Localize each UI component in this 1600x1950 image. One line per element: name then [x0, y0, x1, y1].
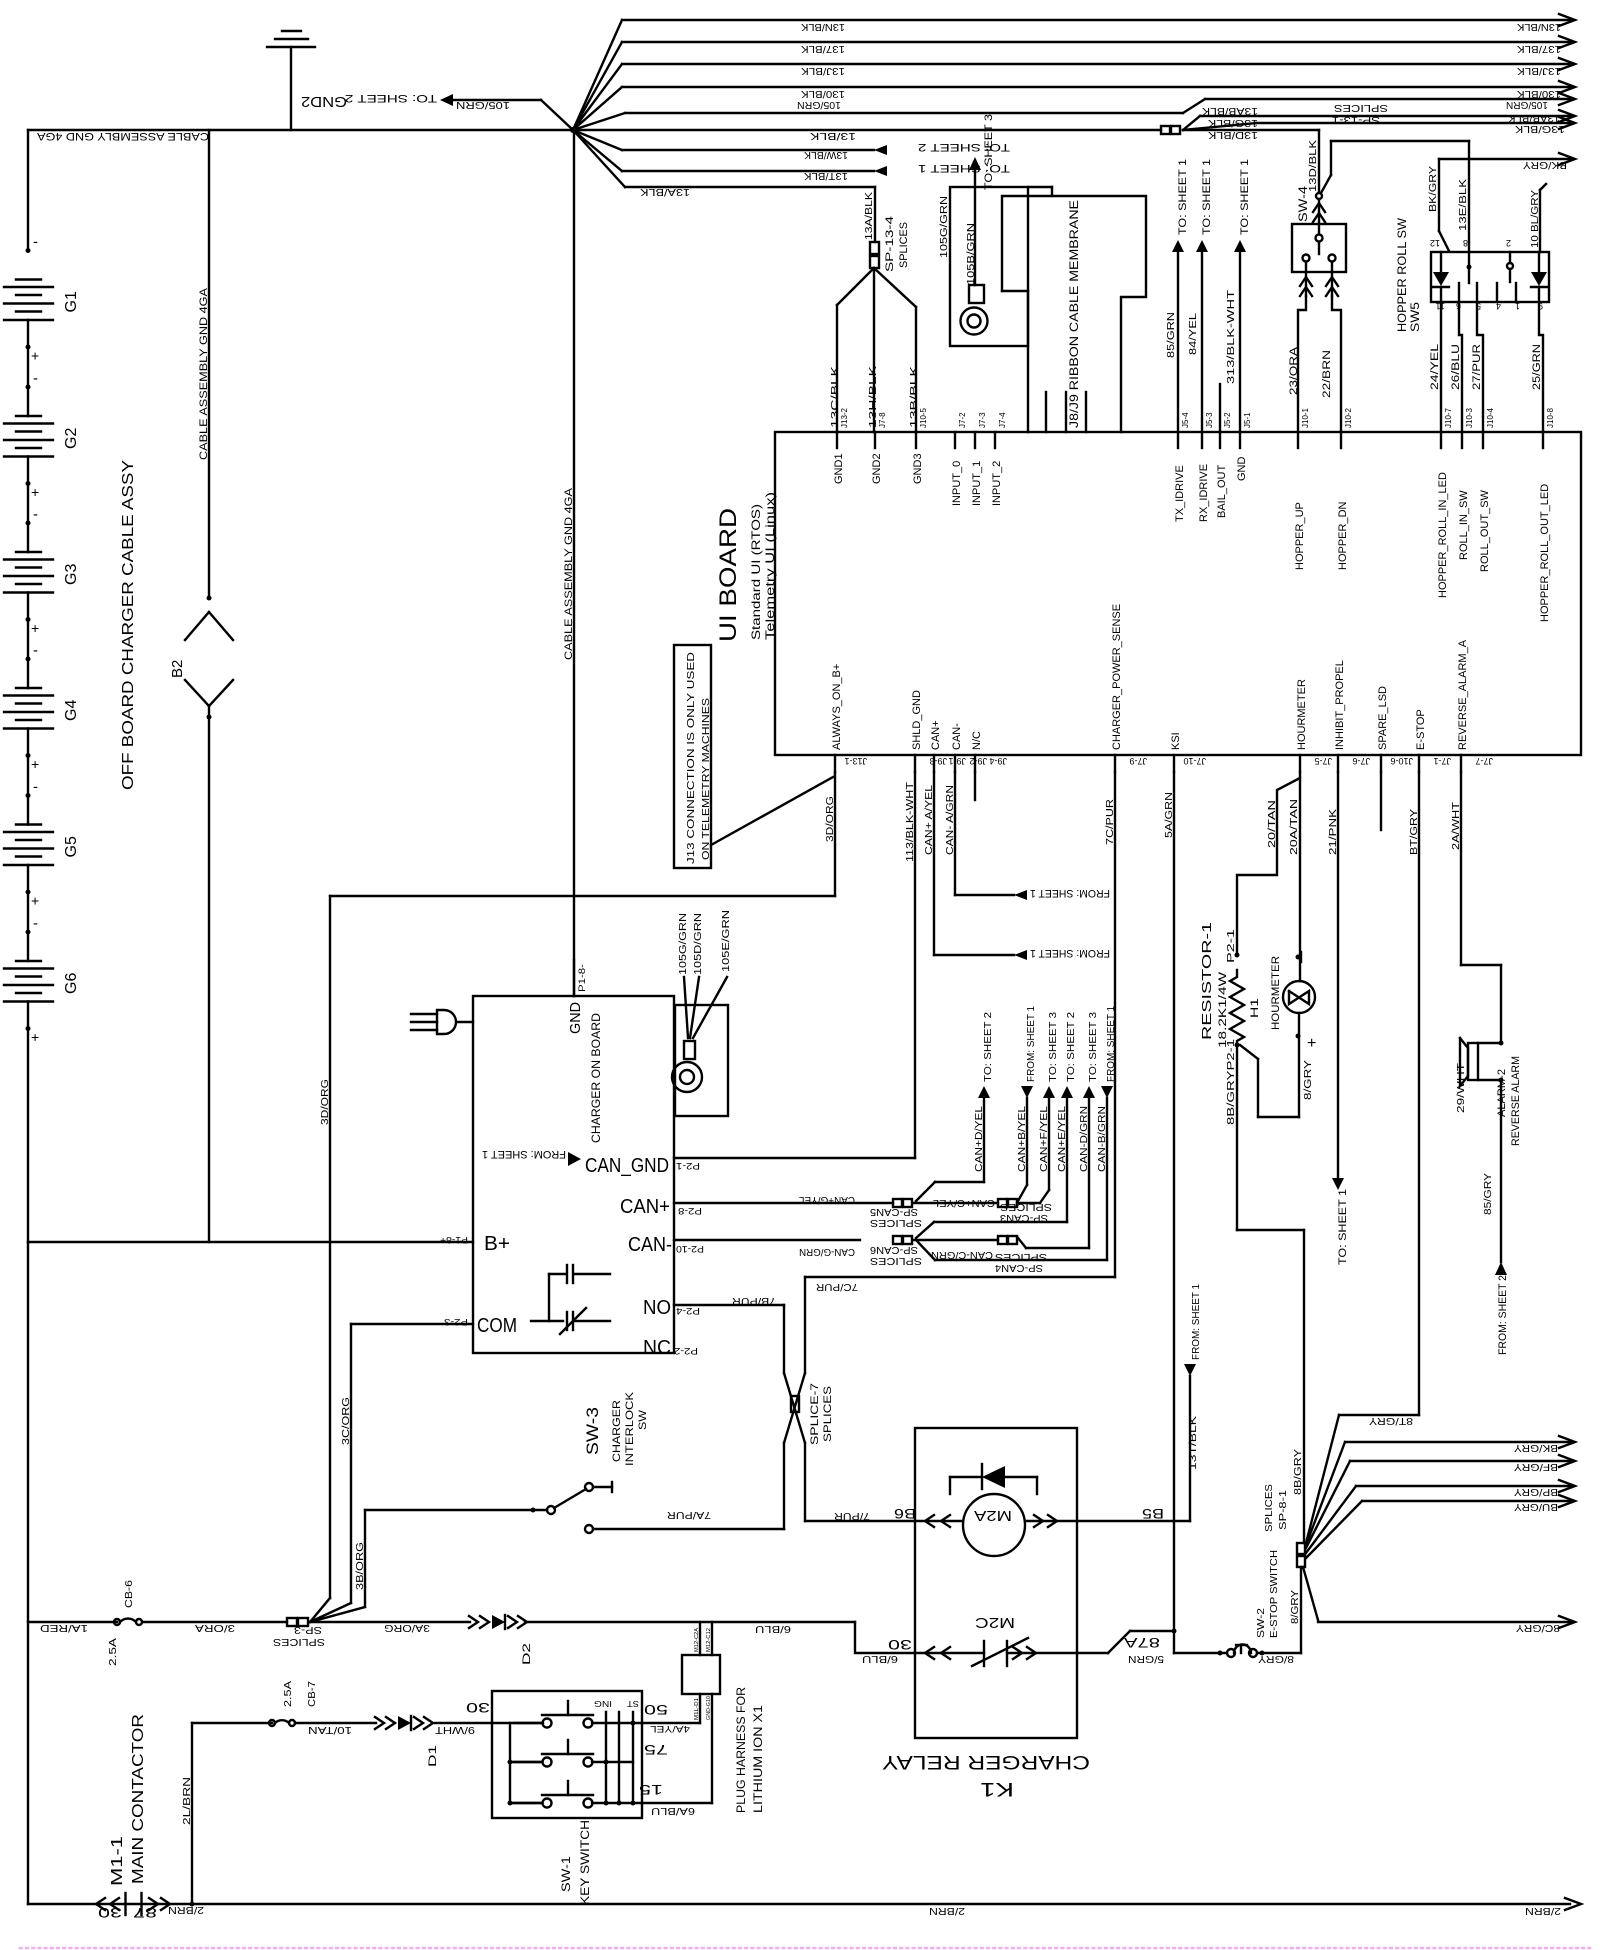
wire CAN- A/GRN from sheet 1 — [954, 772, 956, 895]
svg-text:13J/BLK: 13J/BLK — [1517, 65, 1561, 76]
svg-text:CAN-: CAN- — [628, 1234, 672, 1256]
svg-text:FROM: SHEET 1: FROM: SHEET 1 — [1191, 1284, 1202, 1360]
svg-text:J10-3: J10-3 — [1465, 407, 1474, 428]
svg-text:GND2: GND2 — [301, 93, 347, 110]
svg-text:G5: G5 — [63, 836, 80, 857]
svg-text:B+: B+ — [484, 1233, 510, 1255]
wire 15 to plug connector — [642, 1802, 712, 1804]
svg-text:SW-2: SW-2 — [1256, 1607, 1267, 1638]
wire CAN+ A/YEL from sheet 1 — [933, 772, 935, 955]
svg-text:HOURMETER: HOURMETER — [1270, 956, 1282, 1030]
svg-text:SW: SW — [637, 1409, 649, 1430]
svg-text:SW-3: SW-3 — [583, 1407, 602, 1455]
svg-text:RX_IDRIVE: RX_IDRIVE — [1198, 464, 1210, 522]
connector B2 — [185, 612, 209, 640]
svg-text:J7-3: J7-3 — [978, 412, 987, 428]
wire SW-4 to 22/BRN — [1331, 262, 1333, 296]
wire 20/TAN to resistor — [1237, 772, 1300, 955]
svg-text:87: 87 — [133, 1905, 157, 1921]
svg-text:J7-4: J7-4 — [998, 412, 1007, 428]
svg-text:137/BLK: 137/BLK — [1517, 43, 1561, 54]
pin J9-1 signal CAN+ — [933, 755, 935, 772]
svg-text:SPLICES: SPLICES — [1264, 1484, 1275, 1532]
svg-text:-: - — [33, 370, 38, 387]
svg-text:8B/GRY: 8B/GRY — [1293, 1449, 1304, 1495]
svg-text:SW-1: SW-1 — [559, 1856, 573, 1892]
svg-text:-: - — [33, 234, 38, 251]
wire G1 to G2 — [27, 320, 29, 416]
pin J10-3 signal ROLL_IN_SW — [1461, 432, 1463, 448]
wire 105/GRN to sheet 2 (left arrow) — [541, 100, 573, 130]
wires splice fan to gray harness — [1306, 1442, 1345, 1545]
svg-text:CAN- A/GRN: CAN- A/GRN — [945, 785, 956, 855]
svg-text:MAIN CONTACTOR: MAIN CONTACTOR — [130, 1714, 147, 1884]
svg-text:6/BLU: 6/BLU — [755, 1623, 791, 1634]
svg-text:HOPPER_ROLL_IN_LED: HOPPER_ROLL_IN_LED — [1437, 472, 1449, 598]
svg-text:P2-8: P2-8 — [678, 1206, 702, 1216]
svg-text:2A/WHT: 2A/WHT — [1451, 802, 1462, 850]
splice SP-CAN6 on CAN- row — [893, 1236, 902, 1244]
pin J7-5 signal HOURMETER — [1299, 755, 1301, 772]
svg-text:ROLL_OUT_SW: ROLL_OUT_SW — [1479, 489, 1491, 572]
svg-text:NO: NO — [643, 1297, 671, 1319]
svg-text:CAN+ A/YEL: CAN+ A/YEL — [924, 784, 935, 855]
svg-text:105G/GRN: 105G/GRN — [678, 913, 689, 975]
svg-text:8C/GRY: 8C/GRY — [1516, 1622, 1560, 1633]
pin J10-8 signal HOPPER_ROLL_OUT_LED — [1542, 432, 1544, 448]
svg-text:13W/BLK: 13W/BLK — [804, 149, 848, 160]
ring terminal lug 2 — [684, 1041, 695, 1059]
svg-text:ROLL_IN_SW: ROLL_IN_SW — [1458, 490, 1470, 560]
svg-text:75: 75 — [644, 1742, 668, 1758]
key switch internal contacts — [492, 1722, 543, 1724]
svg-text:2/BRN: 2/BRN — [929, 1905, 965, 1916]
svg-text:E-STOP SWITCH: E-STOP SWITCH — [1269, 1550, 1280, 1638]
svg-text:1: 1 — [1515, 301, 1520, 311]
pin J10-6 signal SPARE_LSD — [1380, 755, 1382, 772]
svg-text:BF/GRY: BF/GRY — [1514, 1461, 1558, 1472]
svg-text:9/WHT: 9/WHT — [435, 1724, 475, 1735]
svg-text:D1: D1 — [427, 1745, 439, 1767]
svg-text:LITHIUM ION X1: LITHIUM ION X1 — [751, 1705, 765, 1813]
motor M2A — [963, 1494, 1025, 1556]
wire 7C/PUR charger power sense — [1114, 772, 1116, 1277]
svg-text:FROM: SHEET 1: FROM: SHEET 1 — [1026, 1006, 1037, 1082]
battery G2 — [16, 415, 41, 417]
pin J10-4 signal ROLL_OUT_SW — [1482, 432, 1484, 448]
pin J9-3 signal SHLD_GND — [914, 755, 916, 772]
wire ground stem — [290, 47, 292, 130]
svg-text:J7-9: J7-9 — [1129, 756, 1147, 766]
svg-text:105B/GRN: 105B/GRN — [966, 223, 977, 285]
splice SP-CAN4 on CAN- row — [998, 1236, 1007, 1244]
svg-text:SPLICE-7: SPLICE-7 — [809, 1383, 821, 1445]
svg-text:N/C: N/C — [971, 731, 983, 750]
wire 26/BLU — [1459, 302, 1462, 432]
svg-text:BK/GRY: BK/GRY — [1523, 159, 1567, 170]
wire M2A left B6 — [915, 1520, 963, 1522]
wire 13D/BLK to switch SW-4 — [1183, 129, 1319, 131]
svg-text:22/BRN: 22/BRN — [1321, 350, 1333, 398]
svg-text:GND-G10: GND-G10 — [706, 1696, 712, 1720]
ribbon pins — [1045, 392, 1047, 432]
wire G6 positive to B+ bus — [27, 1002, 29, 1243]
svg-text:SPLICES: SPLICES — [898, 222, 910, 268]
wire cable assembly gnd rail 2 upper — [208, 130, 210, 598]
wire 10 BL/GRY stub — [1539, 190, 1541, 252]
wire CAN- row interconnect — [914, 1239, 998, 1241]
svg-text:SHLD_GND: SHLD_GND — [911, 690, 923, 750]
svg-text:TO: SHEET 3: TO: SHEET 3 — [1048, 1011, 1059, 1082]
svg-text:105/GRN: 105/GRN — [797, 99, 841, 110]
wire top ground bus — [28, 129, 573, 131]
svg-text:KEY SWITCH: KEY SWITCH — [578, 1820, 592, 1905]
svg-text:TO: SHEET 1: TO: SHEET 1 — [918, 162, 1010, 174]
wire 25/GRN — [1539, 302, 1543, 432]
wire 13E/BLK from SW-4 to SW5 pin 8 — [1330, 141, 1332, 175]
svg-text:7B/PUR: 7B/PUR — [732, 1295, 776, 1306]
relay K1 box — [915, 1428, 1077, 1738]
svg-text:24/YEL: 24/YEL — [1429, 344, 1441, 390]
wire 8B/GRY to splice SP-8-1 — [1235, 1043, 1240, 1048]
svg-text:13AB/BLK: 13AB/BLK — [1202, 105, 1258, 116]
wire 3D/ORG from J13-1 to charger circuit — [834, 772, 836, 896]
svg-text:7C/PUR: 7C/PUR — [1105, 799, 1116, 845]
svg-text:J7-8: J7-8 — [878, 412, 887, 428]
svg-text:SPLICES: SPLICES — [870, 1217, 922, 1228]
svg-text:FROM: SHEET 1: FROM: SHEET 1 — [1030, 947, 1110, 959]
svg-text:INHIBIT_PROPEL: INHIBIT_PROPEL — [1334, 660, 1346, 750]
connector SW5 hopper roll switch box — [1431, 252, 1549, 302]
svg-text:P2-4: P2-4 — [676, 1306, 700, 1316]
splice SP-CAN3 on CAN+ row — [998, 1199, 1007, 1207]
svg-text:HOPPER_DN: HOPPER_DN — [1337, 501, 1349, 570]
svg-text:RESISTOR-1: RESISTOR-1 — [1199, 922, 1214, 1040]
svg-text:GND2: GND2 — [871, 453, 883, 484]
pin SW5-2 open contact — [1509, 252, 1511, 263]
wire G5 to G6 — [27, 865, 29, 961]
svg-text:J10-6: J10-6 — [1390, 756, 1413, 766]
power plug symbol — [411, 1013, 437, 1015]
wire G4 to G5 — [27, 729, 29, 825]
svg-text:SPARE_LSD: SPARE_LSD — [1377, 686, 1389, 750]
svg-text:7/PUR: 7/PUR — [834, 1510, 870, 1521]
svg-text:7C/PUR: 7C/PUR — [816, 1281, 858, 1292]
svg-text:84/YEL: 84/YEL — [1188, 312, 1199, 355]
svg-text:M12-C2A: M12-C2A — [694, 1627, 700, 1652]
svg-text:J7-6: J7-6 — [1352, 756, 1370, 766]
svg-text:REVERSE_ALARM_A: REVERSE_ALARM_A — [1457, 639, 1469, 750]
svg-text:25/GRN: 25/GRN — [1531, 344, 1543, 390]
hourmeter H1 symbol — [1283, 981, 1315, 1013]
svg-text:SP-CAN5: SP-CAN5 — [870, 1206, 918, 1217]
node G5 minus terminal — [26, 793, 31, 798]
led hopper roll in (SW5 left) — [1440, 252, 1442, 272]
svg-text:85/GRN: 85/GRN — [1166, 312, 1177, 358]
svg-text:13G/BLK: 13G/BLK — [1515, 123, 1565, 134]
svg-text:J10-2: J10-2 — [1344, 407, 1353, 428]
svg-text:M1L-D1: M1L-D1 — [694, 1698, 700, 1720]
svg-text:J5-2: J5-2 — [1223, 412, 1232, 428]
svg-text:CAN+E/YEL: CAN+E/YEL — [1057, 1105, 1068, 1172]
svg-text:87A: 87A — [1123, 1635, 1160, 1651]
pin J10-1 signal HOPPER_UP — [1297, 432, 1299, 448]
svg-text:105E/GRN: 105E/GRN — [721, 910, 732, 972]
wire 3B/ORG — [364, 1510, 366, 1607]
pin J5-3 signal RX_IDRIVE — [1201, 432, 1203, 448]
wire battery rail to main contactor — [27, 1242, 29, 1904]
wire cable assembly gnd rail 3 — [573, 130, 575, 996]
wires splice SP-3 fan to 3D/3C/3B ORG — [310, 1598, 330, 1622]
svg-text:P2-2: P2-2 — [674, 1346, 698, 1356]
svg-text:130/BLK: 130/BLK — [1517, 88, 1561, 99]
svg-text:D2: D2 — [521, 1643, 533, 1665]
svg-text:130/BLK: 130/BLK — [801, 88, 845, 99]
svg-text:HOPPER ROLL SW: HOPPER ROLL SW — [1395, 217, 1409, 332]
battery G3 — [16, 551, 41, 553]
svg-text:J7-1: J7-1 — [1433, 756, 1451, 766]
svg-text:CABLE ASSEMBLY GND 4GA: CABLE ASSEMBLY GND 4GA — [36, 130, 209, 142]
diode D1 — [375, 1717, 384, 1729]
battery G1 — [16, 278, 41, 280]
wire CAN+B/YEL from sheet 1 — [1018, 1185, 1027, 1201]
ring terminal lug box (13A ground) — [950, 187, 1028, 346]
wire SPARE_LSD stub — [1380, 772, 1382, 830]
svg-text:2.5A: 2.5A — [283, 1681, 294, 1707]
svg-text:13T/BLK: 13T/BLK — [804, 170, 848, 181]
pin J7-10 signal KSI — [1173, 755, 1175, 772]
wire rail2 lower — [207, 715, 212, 720]
svg-text:105D/GRN: 105D/GRN — [693, 913, 704, 975]
svg-text:M12-C12: M12-C12 — [706, 1628, 712, 1652]
svg-text:4: 4 — [1496, 301, 1501, 311]
contact M2C — [915, 1652, 984, 1654]
pin GND P1-8- — [573, 960, 575, 996]
wire 27/PUR — [1477, 302, 1483, 432]
svg-text:J7-7: J7-7 — [1475, 756, 1493, 766]
wire 13D chevrons into SW-4 box — [1318, 199, 1320, 224]
ring terminal lug 1 — [969, 285, 984, 303]
wire 13G/BLK — [1183, 123, 1256, 130]
pin J7-1 signal E-STOP — [1418, 755, 1420, 772]
svg-text:TX_IDRIVE: TX_IDRIVE — [1174, 465, 1186, 522]
svg-text:J10-1: J10-1 — [1301, 407, 1310, 428]
svg-text:FROM: SHEET 2: FROM: SHEET 2 — [1497, 1275, 1509, 1355]
svg-text:Standard UI (RTOS): Standard UI (RTOS) — [749, 504, 763, 640]
pin J5-1 signal GND — [1239, 432, 1241, 448]
svg-text:GND3: GND3 — [912, 453, 924, 484]
wire 1A/RED battery to CB-6 — [28, 1621, 117, 1623]
svg-text:J5-4: J5-4 — [1181, 412, 1190, 428]
svg-text:20A/TAN: 20A/TAN — [1289, 799, 1300, 855]
wire hourmeter minus to resistor — [1240, 1045, 1258, 1059]
svg-text:8/GRY: 8/GRY — [1258, 1653, 1294, 1664]
splice SP-3 — [287, 1618, 297, 1626]
svg-text:SP-3: SP-3 — [293, 1624, 322, 1635]
wire 8/GRY splice to switch — [1300, 1567, 1302, 1653]
svg-text:CABLE ASSEMBLY GND 4GA: CABLE ASSEMBLY GND 4GA — [563, 487, 575, 660]
svg-text:29/WHT: 29/WHT — [1456, 1063, 1467, 1113]
pin J7-9 signal CHARGER_POWER_SENSE — [1114, 755, 1116, 772]
wire 2A/WHT reverse alarm — [1460, 772, 1462, 965]
key switch output columns ING ST — [605, 1712, 607, 1803]
svg-text:CAN-C/GRN: CAN-C/GRN — [931, 1249, 993, 1260]
svg-text:13N/BLK: 13N/BLK — [801, 21, 845, 32]
svg-text:5/GRN: 5/GRN — [1128, 1653, 1164, 1664]
svg-text:SW-4: SW-4 — [1296, 186, 1310, 222]
wire 21/PNK inhibit propel to sheet 1 — [1337, 772, 1339, 1178]
wires 105G/105D/105E GRN to lug — [684, 977, 688, 1038]
splice SP-13-1 — [1161, 126, 1170, 134]
svg-text:-: - — [33, 915, 38, 932]
svg-text:85/GRY: 85/GRY — [1483, 1173, 1494, 1215]
svg-text:INPUT_2: INPUT_2 — [991, 461, 1003, 506]
svg-text:J13 CONNECTION IS ONLY USED: J13 CONNECTION IS ONLY USED — [686, 652, 697, 864]
node ground distribution — [570, 127, 576, 133]
svg-text:PLUG HARNESS FOR: PLUG HARNESS FOR — [734, 1687, 748, 1813]
svg-text:113/BLK-WHT: 113/BLK-WHT — [905, 782, 916, 862]
wire M2A right B5 — [1025, 1520, 1077, 1522]
wire 50 to plug connector — [642, 1722, 700, 1724]
pin J7-8 signal GND2 — [874, 432, 876, 448]
svg-text:FROM: SHEET 1: FROM: SHEET 1 — [1106, 1006, 1117, 1082]
svg-text:8T/GRY: 8T/GRY — [1369, 1415, 1413, 1426]
wire CAN+F/YEL to sheet 3 — [1017, 1202, 1040, 1204]
svg-text:P1-8+: P1-8+ — [440, 1235, 468, 1245]
svg-text:+: + — [31, 756, 39, 772]
svg-text:TO: SHEET 1: TO: SHEET 1 — [1177, 159, 1189, 235]
svg-text:CAN+: CAN+ — [620, 1196, 670, 1218]
svg-text:13G/BLK: 13G/BLK — [1208, 117, 1258, 128]
svg-text:3B/ORG: 3B/ORG — [355, 1542, 366, 1590]
svg-text:CHARGER_POWER_SENSE: CHARGER_POWER_SENSE — [1111, 604, 1123, 750]
wire 3/ORA to splice SP-3 — [142, 1621, 287, 1623]
wire 6/BLU into K1 30 — [525, 1621, 855, 1623]
svg-text:INTERLOCK: INTERLOCK — [624, 1391, 636, 1466]
svg-text:10/TAN: 10/TAN — [308, 1724, 352, 1735]
wire 13C/BLK to J13-2 — [837, 268, 874, 305]
led hopper roll out (SW5 right) — [1538, 252, 1540, 272]
wire BT/GRY e-stop — [1418, 772, 1420, 1415]
wire 20A/TAN to hourmeter — [1299, 778, 1301, 981]
pin J9-2 signal CAN- — [954, 755, 956, 772]
svg-text:H1: H1 — [1249, 998, 1261, 1018]
svg-text:M1-1: M1-1 — [109, 1836, 126, 1886]
splice SP-8-1 — [1297, 1543, 1305, 1554]
svg-text:13N/BLK: 13N/BLK — [1517, 21, 1561, 32]
svg-text:ON TELEMETRY MACHINES: ON TELEMETRY MACHINES — [701, 698, 712, 860]
svg-text:COM: COM — [477, 1315, 517, 1337]
pin J13-1 signal ALWAYS_ON_B+ — [834, 755, 836, 772]
wire N/C stub — [974, 772, 976, 800]
svg-text:B5: B5 — [1142, 1506, 1164, 1522]
svg-text:E-STOP: E-STOP — [1415, 709, 1427, 750]
svg-text:TO: SHEET 1: TO: SHEET 1 — [1337, 1189, 1349, 1265]
wire CAN-B/GRN from sheet 1 — [916, 1240, 935, 1260]
pin J5-2 signal BAIL_OUT — [1219, 432, 1221, 448]
svg-text:CAN-D/GRN: CAN-D/GRN — [1079, 1106, 1090, 1172]
svg-text:GND: GND — [567, 1002, 584, 1034]
svg-text:GND: GND — [1236, 457, 1248, 482]
pin J10-7 signal HOPPER_ROLL_IN_LED — [1440, 432, 1442, 448]
svg-text:2/BRN: 2/BRN — [168, 1904, 204, 1915]
svg-text:13T/BLK: 13T/BLK — [1188, 1416, 1199, 1470]
svg-text:BP/GRY: BP/GRY — [1514, 1486, 1558, 1497]
svg-text:6A/BLU: 6A/BLU — [651, 1805, 695, 1816]
svg-text:G2: G2 — [63, 428, 80, 449]
svg-text:CAN+: CAN+ — [930, 720, 942, 750]
svg-text:FROM: SHEET 1: FROM: SHEET 1 — [1030, 887, 1110, 899]
svg-text:J7-10: J7-10 — [1183, 756, 1206, 766]
svg-text:TO: SHEET 2: TO: SHEET 2 — [983, 1011, 994, 1082]
svg-text:-: - — [33, 642, 38, 659]
svg-text:HOPPER_ROLL_OUT_LED: HOPPER_ROLL_OUT_LED — [1539, 484, 1551, 622]
svg-text:SP-CAN6: SP-CAN6 — [870, 1244, 918, 1255]
svg-text:8/GRY: 8/GRY — [1290, 1590, 1301, 1624]
svg-text:CHARGER: CHARGER — [611, 1400, 623, 1462]
svg-text:6/BLU: 6/BLU — [862, 1653, 898, 1664]
svg-text:ING: ING — [594, 1699, 612, 1708]
svg-text:P2-1: P2-1 — [1226, 928, 1237, 963]
wire 13N/BLK — [573, 20, 622, 130]
svg-text:TO: SHEET 1: TO: SHEET 1 — [1239, 159, 1251, 235]
svg-text:13J/BLK: 13J/BLK — [801, 65, 845, 76]
svg-text:J13-2: J13-2 — [840, 407, 849, 428]
wire 9/WHT to key switch — [435, 1722, 492, 1724]
svg-text:+: + — [1307, 1035, 1316, 1052]
wire 13T/BLK from sheet 1 — [1184, 1364, 1196, 1376]
svg-text:30: 30 — [466, 1700, 490, 1716]
svg-text:P1-8-: P1-8- — [577, 964, 587, 992]
svg-text:CAN-B/GRN: CAN-B/GRN — [1097, 1106, 1108, 1172]
svg-text:G3: G3 — [63, 564, 80, 585]
svg-text:J9-4: J9-4 — [989, 756, 1007, 766]
svg-text:8/GRY: 8/GRY — [1303, 1060, 1314, 1100]
svg-text:G6: G6 — [63, 973, 80, 994]
leader line from note to J13-1 — [711, 777, 833, 845]
svg-text:FROM: SHEET 1: FROM: SHEET 1 — [482, 1148, 566, 1160]
wire to CB-7 — [192, 1722, 272, 1724]
svg-text:J7-5: J7-5 — [1314, 756, 1332, 766]
svg-text:2/BRN: 2/BRN — [1525, 1905, 1561, 1916]
svg-text:13D/BLK: 13D/BLK — [1308, 140, 1319, 192]
pin J7-6 signal INHIBIT_PROPEL — [1337, 755, 1339, 772]
pin SW5-8 wire inside — [1468, 252, 1470, 283]
svg-text:23/ORA: 23/ORA — [1288, 346, 1300, 395]
node G6 minus terminal — [26, 930, 31, 935]
membrane connector outline — [1002, 196, 1146, 432]
svg-text:105G/GRN: 105G/GRN — [939, 196, 950, 258]
svg-text:TO: SHEET 3: TO: SHEET 3 — [983, 114, 995, 190]
wire M2C to 87A — [1007, 1652, 1077, 1654]
svg-text:20/TAN: 20/TAN — [1267, 800, 1278, 848]
pin stubs SW5 bottom — [1458, 283, 1460, 302]
svg-text:3C/ORG: 3C/ORG — [341, 1397, 352, 1445]
page edge dots — [20, 1947, 1590, 1950]
ground symbol GND2 — [267, 46, 315, 48]
svg-text:105/GRN: 105/GRN — [456, 99, 510, 110]
svg-text:GND1: GND1 — [833, 453, 845, 484]
wire G3 to G4 — [27, 593, 29, 689]
svg-text:-: - — [33, 779, 38, 796]
wire 13W/BLK to sheet 2 — [573, 130, 622, 150]
svg-text:CAN_GND: CAN_GND — [585, 1155, 669, 1177]
wire 113/BLK-WHT shield ground — [914, 772, 916, 1158]
svg-text:J9-1: J9-1 — [948, 756, 966, 766]
svg-text:26/BLU: 26/BLU — [1450, 344, 1462, 390]
svg-text:2L/BRN: 2L/BRN — [182, 1777, 193, 1825]
wire 130/BLK — [573, 87, 622, 130]
